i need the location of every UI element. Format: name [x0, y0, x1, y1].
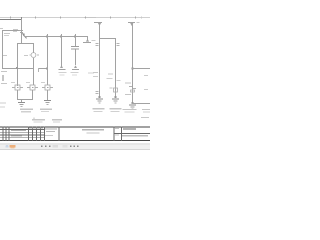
wire drop C1 [75, 34, 76, 46]
wire X6 drop [132, 23, 133, 103]
label note right of X3 [88, 73, 94, 74]
stub right edge b [144, 89, 148, 90]
ground PE4 [112, 99, 119, 104]
actuator arrow of F1 [22, 33, 27, 38]
wire drop to lamp H1 [33, 43, 34, 53]
wire drop X2 [61, 34, 62, 67]
wire lamp branch horizontal [17, 43, 34, 44]
connector X6 top bar [128, 22, 140, 26]
title text sheet [115, 135, 148, 137]
title text approval cell [45, 128, 57, 136]
wire right horizontal upper [132, 68, 150, 69]
wire to ground left [21, 99, 22, 102]
wire C1 down [75, 49, 76, 65]
contact S1 marks [96, 43, 99, 46]
wire F1 lower drop [21, 34, 22, 43]
junction node bus K2 [46, 36, 48, 38]
connector X5 top bar [94, 22, 102, 26]
label S3 a [125, 83, 131, 84]
connector X2 bar [59, 65, 66, 70]
label F1 value [13, 29, 18, 32]
switch S3 [129, 86, 136, 92]
title block middle divider [58, 127, 61, 142]
wire main bus [25, 36, 87, 37]
label left column b [1, 83, 7, 84]
title block frame [0, 127, 150, 142]
breaker F1 [19, 30, 23, 34]
title text company [82, 129, 104, 134]
meter P3 [42, 85, 53, 90]
label under PE4 [110, 108, 122, 112]
wire P3 leg [47, 90, 48, 100]
junction node bus X2 [60, 36, 62, 38]
contact S1 lower marks [96, 91, 99, 94]
status bar page icons [41, 145, 58, 148]
wire drop to P1 [17, 43, 18, 86]
label X4 [92, 40, 96, 41]
ground PE5 [129, 105, 136, 110]
wire branch top [99, 38, 116, 39]
wire drop right branch [115, 38, 116, 97]
title block revision columns [3, 127, 45, 142]
wire drop K2 [47, 34, 48, 85]
title block company divider [113, 127, 116, 142]
wire joining legs [17, 99, 33, 100]
wire left vertical [2, 30, 3, 68]
stub right edge a [144, 75, 148, 76]
wire drop left branch [99, 38, 100, 97]
connector X3 bar [72, 65, 79, 70]
wire lamp H1 down [33, 58, 34, 85]
title block label col [120, 127, 123, 142]
label B1 tick [110, 80, 121, 89]
label K1 coil a [93, 72, 98, 77]
wire P2 leg [32, 90, 33, 99]
title text revision cells [11, 127, 43, 136]
junction node right upper [132, 68, 134, 70]
lamp H1 [30, 53, 40, 58]
status bar [0, 143, 150, 150]
capacitor C1 [71, 46, 79, 50]
label P1 [11, 82, 15, 83]
wire L1 feeder segment [0, 17, 22, 20]
junction node at X17 [16, 67, 18, 69]
label X3 [71, 72, 79, 76]
label under PE1 [20, 109, 33, 113]
status bar blue icon [6, 145, 9, 147]
wire bridge to K2 drop [38, 68, 48, 72]
title block right split [114, 132, 151, 135]
junction node bus C1 [74, 36, 76, 38]
wire bus end corner [87, 36, 88, 40]
device B1 [114, 88, 118, 92]
junction node G4 [115, 96, 117, 98]
label left column a [1, 71, 7, 72]
ground PE1 [18, 102, 25, 107]
note formula b [52, 119, 62, 123]
label far left L1 [0, 28, 3, 29]
label P2 [26, 82, 30, 83]
junction node right lower [132, 102, 134, 104]
label K2 coil a [107, 74, 114, 80]
label X2 [59, 72, 67, 76]
label under PE3 [93, 108, 105, 112]
contact S2 marks [117, 43, 120, 46]
wire base of F1 to left [2, 30, 19, 31]
junction node G3 [99, 96, 101, 98]
wire drop to Q1 [21, 19, 22, 30]
label S3 b [125, 94, 131, 95]
label under PE5 [123, 109, 137, 113]
node L1 top supply rail [0, 16, 150, 18]
status bar zoom icons [63, 145, 79, 148]
note top right [141, 117, 149, 118]
title block revision rows [0, 129, 44, 138]
ground PE3 [96, 99, 103, 104]
meter P1 [12, 85, 23, 90]
label X ticks [3, 55, 28, 56]
ground PE2 [44, 100, 51, 105]
wire P1 leg [17, 90, 18, 99]
label P3 [41, 82, 45, 83]
label 230V [4, 33, 10, 36]
label far left column [0, 103, 6, 108]
meter P2 [27, 85, 38, 90]
title text drawing number [115, 128, 136, 130]
label right edge bottom [142, 109, 150, 113]
wire X5 drop [99, 23, 100, 38]
wire lower horizontal net [2, 68, 33, 69]
label under PE2 [40, 109, 52, 113]
note formula a [32, 118, 45, 123]
symbol left column [2, 75, 4, 81]
connector X4 bar [83, 39, 91, 43]
wire right horizontal lower [132, 103, 150, 104]
status bar orange icon [10, 145, 16, 148]
